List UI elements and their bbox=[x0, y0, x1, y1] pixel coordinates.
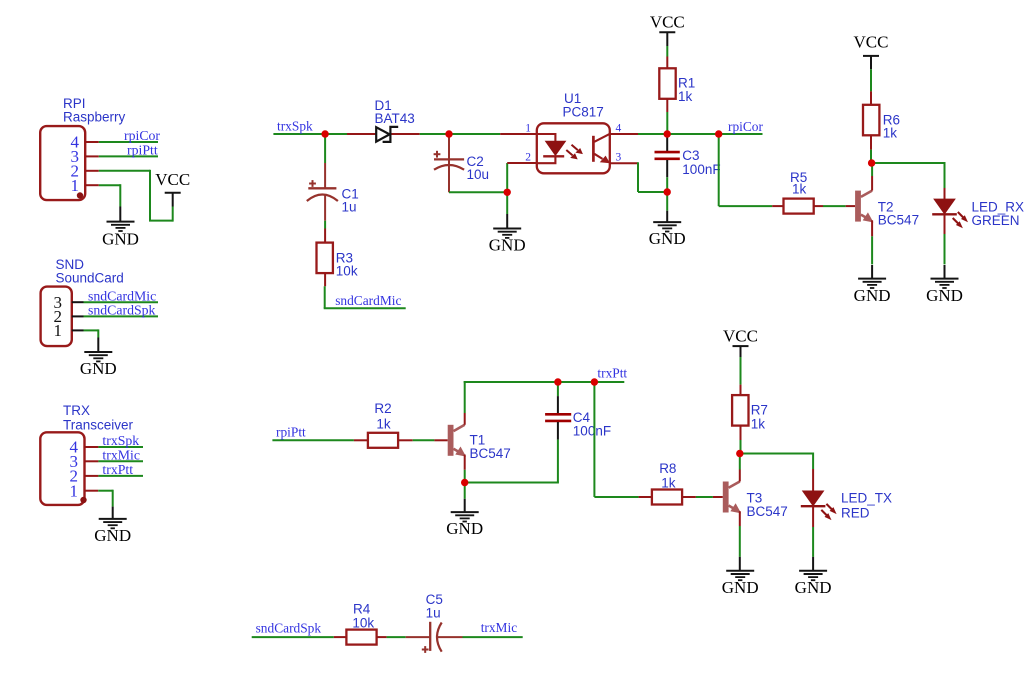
resistor R1 body (1k) bbox=[659, 68, 675, 99]
svg-text:GND: GND bbox=[489, 236, 526, 255]
TRX pin 1 stub bbox=[85, 490, 99, 492]
wire T1 emitter to GND bbox=[464, 470, 466, 512]
ground symbol GND (C3) bbox=[649, 222, 686, 248]
svg-text:trxSpk: trxSpk bbox=[102, 433, 139, 448]
svg-text:rpiPtt: rpiPtt bbox=[276, 424, 306, 439]
U1 pin 1 lead bbox=[500, 133, 537, 135]
resistor R1 lead top bbox=[666, 57, 668, 69]
resistor R2 lead left bbox=[354, 439, 368, 441]
svg-text:R4: R4 bbox=[353, 602, 371, 617]
wire node to LED_RX bbox=[872, 162, 945, 164]
svg-text:GND: GND bbox=[94, 526, 131, 545]
node C3 bottom / GND bbox=[664, 188, 671, 195]
wire R6 to collector node bbox=[870, 150, 872, 163]
wire rpiCor from RPI pin 4 bbox=[99, 141, 158, 143]
resistor R5 lead left bbox=[772, 205, 784, 207]
wire C1 to R3 bbox=[324, 221, 326, 229]
svg-text:rpiCor: rpiCor bbox=[728, 119, 764, 134]
wire node up to U1 pin 2 bbox=[506, 163, 508, 193]
net label rpiPtt bbox=[127, 143, 158, 158]
svg-text:VCC: VCC bbox=[155, 170, 190, 189]
svg-text:100nF: 100nF bbox=[573, 423, 611, 438]
U1 pin 4 lead bbox=[610, 133, 638, 135]
svg-text:1k: 1k bbox=[751, 416, 766, 431]
svg-text:10u: 10u bbox=[467, 167, 490, 182]
transistor T3 labels bbox=[747, 491, 788, 519]
wire R7 to collector node bbox=[740, 440, 742, 454]
wire U1 pin 4 to R1 node bbox=[638, 133, 667, 135]
wire C5 to trxMic bbox=[463, 636, 523, 638]
ground symbol GND (T1) bbox=[446, 512, 483, 538]
resistor R6 lead bottom bbox=[870, 135, 872, 149]
resistor R2 labels bbox=[374, 401, 391, 432]
resistor R5 body (1k) bbox=[784, 199, 814, 214]
svg-text:10k: 10k bbox=[336, 263, 358, 278]
net label trxMic (C5) bbox=[481, 620, 518, 635]
svg-text:trxPtt: trxPtt bbox=[102, 462, 133, 477]
svg-text:Transceiver: Transceiver bbox=[63, 418, 134, 433]
svg-text:VCC: VCC bbox=[723, 326, 758, 345]
wire trxSpk from TRX pin 4 bbox=[98, 446, 143, 448]
resistor R8 lead right bbox=[682, 496, 696, 498]
svg-text:R2: R2 bbox=[374, 401, 391, 416]
transistor T3 (BC547) bbox=[723, 482, 740, 513]
wire LED_RX top bbox=[944, 162, 946, 188]
svg-text:PC817: PC817 bbox=[563, 105, 604, 120]
resistor R3 body (10k) bbox=[317, 243, 333, 274]
TRX pin numbers 4 3 2 1 bbox=[70, 438, 79, 501]
svg-text:sndCardSpk: sndCardSpk bbox=[256, 620, 322, 635]
transistor T1 (BC547) bbox=[448, 425, 465, 456]
ground symbol GND (RPI) bbox=[102, 222, 139, 249]
capacitor C4 (100nF) bbox=[545, 382, 571, 440]
op-amp U1 labels (U1 PC817) bbox=[563, 91, 604, 120]
wire R3 to sndCardMic bbox=[324, 286, 406, 308]
RPI pin 3 stub bbox=[85, 155, 99, 157]
wire VCC to R1 bbox=[666, 32, 668, 56]
LED_TX anode lead bbox=[812, 469, 814, 492]
resistor R4 lead right bbox=[377, 636, 387, 638]
svg-text:R8: R8 bbox=[659, 461, 676, 476]
resistor R4 lead left bbox=[334, 636, 346, 638]
resistor R5 lead right bbox=[814, 205, 823, 207]
svg-text:BAT43: BAT43 bbox=[375, 111, 415, 126]
svg-text:1: 1 bbox=[71, 176, 80, 195]
svg-text:1: 1 bbox=[70, 481, 79, 500]
capacitor C3 labels bbox=[682, 148, 720, 177]
wire node down to GND bbox=[506, 192, 508, 214]
capacitor C2 labels bbox=[467, 154, 490, 182]
ground symbol GND (LED_RX) bbox=[926, 279, 963, 305]
resistor R8 lead left bbox=[639, 496, 653, 498]
wire rpiPtt from RPI pin 3 bbox=[99, 155, 158, 157]
T1 base lead bbox=[434, 439, 447, 441]
LED LED_TX (RED) bbox=[801, 491, 837, 520]
U1 pin numbers bbox=[525, 122, 621, 163]
wire rpiCor node down to R5 bbox=[719, 134, 773, 206]
ground symbol GND (TRX) bbox=[94, 519, 131, 545]
node T2 collector bbox=[868, 159, 875, 166]
wire C4 bottom to T1 emitter node bbox=[465, 440, 559, 483]
LED LED_RX (GREEN) bbox=[932, 199, 968, 228]
resistor R4 labels bbox=[352, 602, 374, 631]
resistor R8 labels bbox=[659, 461, 676, 490]
node C2 / U1 pin 2 / GND bbox=[504, 189, 511, 196]
resistor R7 labels bbox=[751, 402, 768, 431]
TRX pin 4 stub bbox=[85, 446, 99, 448]
wire trxPtt from TRX pin 2 bbox=[98, 475, 143, 477]
RPI pin 2 stub bbox=[85, 170, 99, 172]
connector RPI body bbox=[40, 126, 85, 200]
SND pin numbers 3 2 1 bbox=[54, 293, 63, 340]
svg-text:GND: GND bbox=[446, 519, 483, 538]
wire T2 collector to node bbox=[871, 163, 873, 176]
capacitor C3 (100nF) bbox=[655, 134, 680, 177]
T3 base lead bbox=[713, 496, 723, 498]
net label rpiCor (right) bbox=[728, 119, 764, 134]
resistor R1 lead bottom bbox=[666, 99, 668, 112]
wire T3 collector to node bbox=[739, 454, 741, 470]
svg-text:1u: 1u bbox=[342, 200, 357, 215]
svg-text:GND: GND bbox=[80, 359, 117, 378]
svg-text:100nF: 100nF bbox=[682, 162, 720, 177]
svg-text:trxSpk: trxSpk bbox=[277, 118, 313, 133]
wire C1 branch down bbox=[324, 134, 326, 163]
diode D1 lead left bbox=[347, 133, 376, 135]
svg-text:GREEN: GREEN bbox=[972, 213, 1020, 228]
svg-text:1k: 1k bbox=[678, 89, 693, 104]
transistor T2 labels bbox=[878, 199, 919, 227]
LED LED_TX labels (RED) bbox=[841, 491, 892, 521]
wire RPI pin 1 to GND bbox=[99, 184, 121, 221]
net label sndCardMic bbox=[88, 288, 156, 303]
net label trxSpk bbox=[277, 118, 313, 133]
wire trxSpk main bbox=[273, 133, 347, 135]
svg-text:R7: R7 bbox=[751, 402, 768, 417]
svg-text:C3: C3 bbox=[682, 148, 699, 163]
wire T3 emitter to GND bbox=[739, 526, 741, 571]
resistor R7 lead top bbox=[740, 385, 742, 396]
wire node to LED_TX bbox=[740, 453, 813, 455]
net label sndCardSpk (R4) bbox=[256, 620, 322, 635]
T1 collector lead bbox=[464, 413, 466, 425]
svg-text:trxMic: trxMic bbox=[481, 620, 518, 635]
net label rpiCor bbox=[124, 128, 160, 143]
wire R8 to T3 base bbox=[696, 496, 713, 498]
T3 emitter lead bbox=[739, 511, 741, 526]
net label sndCardSpk bbox=[88, 303, 156, 318]
wire R4 to C5 bbox=[387, 636, 406, 638]
svg-text:BC547: BC547 bbox=[878, 212, 919, 227]
wire T1 collector to trxPtt bbox=[464, 381, 558, 413]
SND pin 1 stub bbox=[72, 329, 84, 331]
resistor R5 labels bbox=[790, 170, 807, 197]
node rpiCor bbox=[715, 130, 722, 137]
T2 base lead bbox=[846, 205, 855, 207]
svg-text:GND: GND bbox=[102, 230, 139, 249]
resistor R2 lead right bbox=[398, 439, 413, 441]
SND pin 2 stub bbox=[72, 315, 84, 317]
resistor R6 lead top bbox=[870, 91, 872, 104]
wire LED_TX to GND bbox=[812, 527, 814, 571]
node R1 / U1 pin4 / C3 bbox=[664, 130, 671, 137]
ground symbol GND (T3) bbox=[722, 571, 759, 597]
wire rpiCor stub bbox=[719, 133, 763, 135]
net label trxPtt bbox=[597, 366, 627, 381]
LED_TX cathode lead bbox=[812, 506, 814, 527]
power symbol VCC (R7) bbox=[723, 326, 758, 346]
resistor R4 body (10k) bbox=[346, 630, 376, 645]
power symbol VCC (R1) bbox=[650, 12, 685, 32]
capacitor C1 (polarized 1u) bbox=[307, 163, 338, 221]
wire trxMic from TRX pin 3 bbox=[98, 460, 143, 462]
transistor T2 (BC547) bbox=[855, 191, 872, 222]
resistor R8 body (1k) bbox=[652, 490, 682, 505]
wire node to rpiCor node bbox=[667, 133, 719, 135]
power symbol VCC (R6) bbox=[854, 33, 889, 56]
wire sndCardSpk bbox=[252, 636, 334, 638]
wire node to U1 pin 1 bbox=[449, 133, 500, 135]
svg-text:GND: GND bbox=[854, 286, 891, 305]
ground symbol GND (LED_TX) bbox=[795, 571, 832, 597]
RPI pin 1 stub bbox=[85, 184, 99, 186]
resistor R7 lead bottom bbox=[740, 426, 742, 440]
optocoupler U1 body PC817 bbox=[537, 123, 610, 173]
connector TRX (Transceiver) refdes labels bbox=[63, 403, 134, 433]
wire VCC to R7 bbox=[740, 346, 742, 385]
svg-text:10k: 10k bbox=[352, 615, 374, 630]
svg-text:BC547: BC547 bbox=[747, 504, 788, 519]
T3 collector lead bbox=[739, 470, 741, 482]
transistor T1 labels bbox=[470, 432, 511, 461]
net label trxSpk (TRX) bbox=[102, 433, 139, 448]
diode D1 labels bbox=[375, 98, 415, 126]
resistor R1 labels bbox=[678, 76, 695, 104]
wire trxPtt node down to R8 bbox=[594, 382, 638, 497]
capacitor C4 labels bbox=[573, 410, 611, 439]
wire rpiPtt bbox=[272, 439, 354, 441]
svg-text:VCC: VCC bbox=[854, 33, 889, 52]
wire RPI pin 2 to VCC bbox=[99, 170, 173, 222]
svg-text:rpiCor: rpiCor bbox=[124, 128, 160, 143]
svg-text:GND: GND bbox=[649, 229, 686, 248]
wire trxPtt stub bbox=[594, 381, 624, 383]
wire U1 pin 3 to GND node bbox=[638, 162, 667, 192]
LED LED_RX labels (GREEN) bbox=[972, 200, 1025, 228]
node trxSpk / C1 bbox=[321, 130, 328, 137]
svg-text:SoundCard: SoundCard bbox=[56, 271, 124, 286]
svg-text:TRX: TRX bbox=[63, 403, 90, 418]
connector RPI (Raspberry) refdes labels bbox=[63, 96, 126, 125]
resistor R2 body (1k) bbox=[368, 433, 398, 448]
wire D1 to C2 node bbox=[420, 133, 449, 135]
power symbol VCC (RPI) bbox=[155, 170, 190, 193]
svg-text:rpiPtt: rpiPtt bbox=[127, 143, 158, 158]
net label trxMic (TRX) bbox=[102, 447, 140, 462]
wire sndCardMic from SND pin 3 bbox=[84, 301, 159, 303]
svg-text:1: 1 bbox=[525, 122, 531, 134]
svg-text:2: 2 bbox=[525, 151, 531, 163]
RPI pin 4 stub bbox=[85, 141, 99, 143]
svg-text:1k: 1k bbox=[792, 182, 807, 197]
diode D1 (BAT43 schottky) bbox=[376, 127, 398, 142]
svg-text:BC547: BC547 bbox=[470, 446, 511, 461]
node T1 emitter bbox=[461, 479, 468, 486]
resistor R3 lead top bbox=[324, 229, 326, 243]
resistor R6 labels bbox=[883, 113, 900, 141]
svg-text:GND: GND bbox=[926, 286, 963, 305]
LED_RX anode lead bbox=[944, 188, 946, 200]
svg-text:1k: 1k bbox=[376, 417, 391, 432]
TRX pin 3 stub bbox=[85, 460, 99, 462]
U1 pin 2 lead bbox=[507, 162, 537, 164]
node T3 collector bbox=[736, 450, 743, 457]
wire C2 bottom to GND node bbox=[449, 191, 507, 193]
resistor R3 lead bottom bbox=[324, 273, 326, 286]
svg-text:trxMic: trxMic bbox=[102, 447, 140, 462]
T2 collector lead bbox=[871, 176, 873, 191]
svg-text:1u: 1u bbox=[426, 606, 441, 621]
capacitor C1 labels bbox=[342, 187, 359, 215]
RPI pin numbers 4 3 2 1 bbox=[71, 133, 80, 195]
ground symbol GND (C2) bbox=[489, 229, 526, 255]
T2 emitter lead bbox=[871, 220, 873, 236]
wire LED_TX top bbox=[812, 453, 814, 470]
capacitor C5 labels bbox=[426, 592, 443, 621]
wire VCC to R6 bbox=[870, 56, 872, 92]
svg-text:4: 4 bbox=[616, 122, 622, 134]
svg-text:GND: GND bbox=[722, 578, 759, 597]
svg-text:trxPtt: trxPtt bbox=[597, 366, 627, 381]
connector SND (SoundCard) refdes labels bbox=[56, 257, 124, 286]
svg-text:sndCardMic: sndCardMic bbox=[335, 293, 401, 308]
wire R5 to T2 base bbox=[823, 205, 846, 207]
net label rpiPtt (R2) bbox=[276, 424, 306, 439]
svg-text:Raspberry: Raspberry bbox=[63, 110, 126, 125]
SND pin 3 stub bbox=[72, 301, 84, 303]
ground symbol GND (SND) bbox=[80, 352, 117, 378]
wire T2 emitter to GND bbox=[871, 236, 873, 278]
wire sndCardSpk from SND pin 2 bbox=[84, 315, 159, 317]
capacitor C5 (polarized 1u) bbox=[406, 622, 463, 653]
svg-text:1k: 1k bbox=[661, 476, 676, 491]
svg-text:sndCardMic: sndCardMic bbox=[88, 288, 156, 303]
svg-text:1k: 1k bbox=[883, 125, 898, 140]
wire LED_RX to GND bbox=[944, 234, 946, 279]
ground symbol GND (T2) bbox=[854, 279, 891, 305]
T1 emitter lead bbox=[464, 455, 466, 470]
svg-text:3: 3 bbox=[616, 151, 622, 163]
net label trxPtt (TRX) bbox=[102, 462, 133, 477]
wire GND node down bbox=[666, 192, 668, 222]
connector SND body bbox=[41, 287, 72, 347]
wire R2 to T1 base bbox=[413, 439, 435, 441]
capacitor C2 (polarized 10u) bbox=[434, 134, 465, 192]
svg-text:VCC: VCC bbox=[650, 12, 685, 31]
svg-text:1: 1 bbox=[54, 321, 63, 340]
LED_RX cathode lead bbox=[944, 214, 946, 234]
wire R1 to node bbox=[666, 112, 668, 134]
diode D1 lead right bbox=[392, 133, 420, 135]
connector TRX body bbox=[40, 432, 86, 505]
TRX pin 2 stub bbox=[85, 475, 99, 477]
wire TRX pin 1 to GND bbox=[98, 490, 113, 519]
U1 pin 3 lead bbox=[610, 162, 638, 164]
resistor R3 labels bbox=[336, 250, 358, 278]
wire C4 node to trxPtt node bbox=[558, 381, 595, 383]
node C4 top bbox=[554, 378, 561, 385]
resistor R7 body (1k) bbox=[732, 395, 748, 426]
node trxPtt bbox=[591, 378, 598, 385]
svg-text:GND: GND bbox=[795, 578, 832, 597]
wire SND pin 1 to GND bbox=[84, 329, 99, 352]
svg-text:sndCardSpk: sndCardSpk bbox=[88, 303, 156, 318]
node D1 / C2 bbox=[445, 130, 452, 137]
resistor R6 body (1k) bbox=[863, 105, 879, 136]
svg-text:LED_TX: LED_TX bbox=[841, 491, 892, 506]
wire C3 to GND node bbox=[666, 177, 668, 192]
svg-text:RED: RED bbox=[841, 505, 870, 520]
